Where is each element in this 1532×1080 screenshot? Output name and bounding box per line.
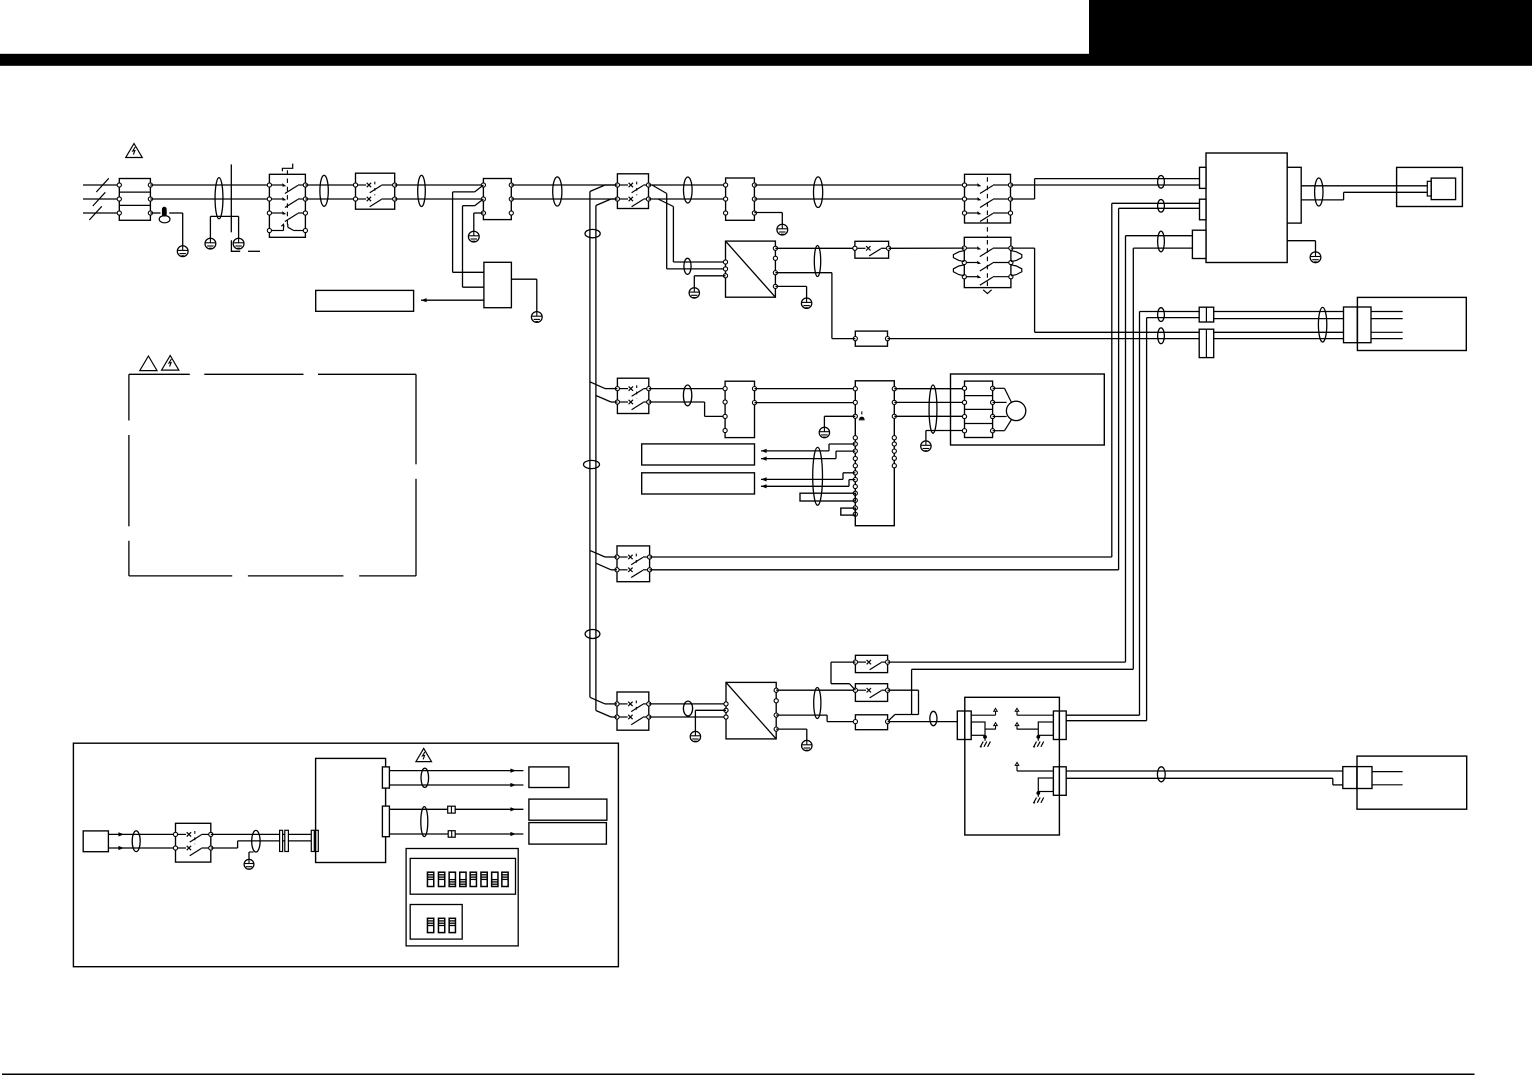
connector J3 xyxy=(1344,307,1372,343)
wire A2-LB3 a xyxy=(761,473,855,482)
slash mark L3 xyxy=(89,206,102,220)
inverter board A2 xyxy=(853,381,896,526)
relay FR1 dashed link xyxy=(986,240,988,289)
wire bus B to T1 xyxy=(463,286,484,288)
slash mark L2 xyxy=(93,192,106,206)
indicator box LB4 xyxy=(529,767,569,788)
contactor K1 xyxy=(267,174,307,237)
wire U1 earth xyxy=(694,276,725,288)
wire J4 pin2 xyxy=(985,728,996,730)
wire SW1 tap A xyxy=(590,185,618,192)
A1 tab P1 xyxy=(1200,167,1207,188)
warning triangle W2 xyxy=(140,356,157,371)
junction dot J6 xyxy=(1036,791,1040,797)
wire R1 long xyxy=(888,338,1200,340)
wire A2 earth xyxy=(824,416,855,427)
wire J2-J3 b xyxy=(1214,338,1344,340)
terminal block X1 xyxy=(117,179,152,221)
ferrite E21 xyxy=(929,385,937,433)
wire bus A to T1 xyxy=(453,271,484,273)
wire shield left drop xyxy=(209,216,211,238)
wire L1 to control unit xyxy=(1011,184,1200,186)
control section box xyxy=(73,743,618,967)
wire PE vertical xyxy=(230,164,232,232)
contactor K1 dashed link xyxy=(286,170,288,226)
switch S3 xyxy=(853,655,889,672)
warning triangle W3 xyxy=(162,356,179,371)
resistor R2 xyxy=(853,715,889,730)
wire plug b xyxy=(1301,192,1427,200)
wire L1 SW1-F2 xyxy=(649,184,726,186)
switch SW4 xyxy=(615,692,651,730)
wire J6 out1 xyxy=(1066,770,1343,772)
warning triangle W1 xyxy=(126,144,143,158)
wire to R1 xyxy=(832,338,855,340)
coil pin Y1b xyxy=(994,723,998,730)
ground G12 xyxy=(690,731,700,741)
switch SW5 dashed link xyxy=(194,831,196,844)
A1 tab P4 right xyxy=(1287,167,1301,223)
wire supply L1 stub xyxy=(83,184,119,186)
connector J6 xyxy=(1053,767,1066,796)
wire v5 xyxy=(1140,312,1200,716)
header top-right black box xyxy=(1089,0,1532,54)
wire SW2-F3 b xyxy=(649,402,725,416)
wire shield drop xyxy=(249,852,254,860)
switch S4 xyxy=(853,684,889,702)
plug enclosure xyxy=(1397,167,1463,206)
noise filter F2 xyxy=(724,178,757,220)
resistor R1 xyxy=(853,331,889,346)
ferrite E11 xyxy=(814,246,820,277)
device box B2 xyxy=(1357,756,1467,809)
label box LB2 xyxy=(642,444,755,465)
junction dot J4 xyxy=(983,735,987,741)
ferrite E18 xyxy=(1315,178,1323,206)
ground G1 xyxy=(177,246,188,257)
coil pin Y3 xyxy=(1015,762,1019,769)
ground G7 xyxy=(689,288,699,298)
coil pin Y2a xyxy=(1015,708,1019,715)
wire L2 S1-F1 xyxy=(395,198,484,200)
dip switch T1 xyxy=(427,918,433,932)
motor M1 circle xyxy=(1006,401,1025,420)
noise filter F1 xyxy=(481,179,513,220)
connector J8 xyxy=(280,830,289,851)
dip switch S6 xyxy=(481,872,487,886)
wire supply L3 stub xyxy=(83,212,119,214)
wire SW5 out a xyxy=(211,833,311,835)
wire R2 branch xyxy=(889,669,1134,721)
converter U2 xyxy=(724,682,778,739)
wire v3 xyxy=(1126,236,1193,662)
wire F3-A2 b xyxy=(755,402,856,404)
bus ferrite E7 xyxy=(585,630,600,639)
label box LB3 xyxy=(642,473,755,494)
earth dash mark xyxy=(248,250,260,252)
ground G6 xyxy=(777,224,788,235)
connector J9 xyxy=(311,830,318,851)
inline connector J11 xyxy=(448,831,455,838)
warning triangle W4 xyxy=(416,748,432,761)
wire motor earth line xyxy=(926,431,965,441)
wire M1 e xyxy=(993,420,1012,431)
switch SW5 xyxy=(173,823,213,862)
ground G8 xyxy=(801,298,811,308)
connector J5 key xyxy=(1038,722,1053,735)
dip switch S1 xyxy=(427,872,433,886)
connector J4 xyxy=(957,711,971,740)
wire J1-J3 b xyxy=(1214,318,1344,320)
wire A2-M1 u xyxy=(894,388,964,390)
wire L1 K1-S1 xyxy=(305,184,355,186)
wire B1 pin3 xyxy=(1371,331,1403,333)
ferrite E15 xyxy=(1158,308,1165,322)
coil pin Y2b xyxy=(1015,723,1019,730)
wire SW5 out b xyxy=(211,841,311,848)
dip switch S3 xyxy=(449,872,455,886)
switch S1 dashed link xyxy=(374,182,376,196)
wire L3 X1-thermal xyxy=(150,212,160,214)
A2 edge tab small xyxy=(841,508,856,515)
ground G3 xyxy=(233,238,244,249)
relay FR1 trip arrow xyxy=(983,290,991,294)
wire L2 K1-S1 xyxy=(305,198,355,200)
connector J4 key xyxy=(971,722,985,735)
wire U2 out2 xyxy=(776,715,855,722)
wire B2 pin1 xyxy=(1372,771,1403,773)
slash mark L1 xyxy=(96,178,109,192)
junction dot J5 xyxy=(1036,735,1040,741)
switch SW2 xyxy=(615,378,651,413)
A3 tab Q2 xyxy=(382,806,389,837)
wire B3 out a xyxy=(108,832,175,836)
wire thermal-ground xyxy=(169,213,183,246)
contactor K1 operator symbol xyxy=(282,164,292,172)
ferrite E2 xyxy=(320,175,328,206)
ferrite E3 xyxy=(418,175,426,206)
wire SW2 tap A xyxy=(590,382,618,389)
wire A2-M1 v xyxy=(894,401,964,403)
wire Q1 b xyxy=(389,783,523,787)
wire shield right drop xyxy=(238,216,240,238)
wire v4 xyxy=(1133,248,1192,669)
wire F2 earth xyxy=(754,213,782,225)
plug body P5 xyxy=(1431,178,1455,200)
ferrite E10 xyxy=(814,177,823,208)
wire SW4-U2 b xyxy=(649,716,726,718)
ferrite E22 xyxy=(683,701,692,716)
ground G4 xyxy=(468,231,479,242)
dip switch S8 xyxy=(502,872,508,886)
ground G5 xyxy=(531,312,542,323)
wire SW4-U2 a xyxy=(649,703,726,705)
wire S3 input xyxy=(831,662,855,690)
thermal sensor xyxy=(159,207,170,223)
wire F3-A2 a xyxy=(755,388,856,390)
connector J6 key xyxy=(1038,778,1053,792)
control bus B xyxy=(595,206,597,711)
wire A2-LB2 a xyxy=(761,444,855,453)
ferrite E25 xyxy=(1157,767,1165,782)
wire R2 out xyxy=(888,721,958,723)
dip switch T2 xyxy=(438,918,444,932)
wire U2 out1 xyxy=(776,689,855,691)
ferrite E9 xyxy=(684,258,691,274)
ferrite E12 xyxy=(1158,176,1165,189)
wire SW1 branch2 xyxy=(658,199,726,262)
wire L1 F2-KM1 xyxy=(754,184,964,186)
wire SW1 tap B xyxy=(596,199,618,206)
ground G11 xyxy=(921,441,931,451)
motor enclosure xyxy=(951,374,1105,445)
header bar xyxy=(0,54,1532,66)
wire J5 out1 xyxy=(1066,714,1139,716)
wire J2-J3 a xyxy=(1214,331,1344,333)
wire L2 SW1-F2 xyxy=(649,198,726,200)
wire plug a xyxy=(1301,185,1427,187)
wire SW4 tap B xyxy=(596,711,617,718)
wire U1 out2 xyxy=(775,273,832,339)
wire Q1 a xyxy=(389,769,523,773)
wire J6 out2 xyxy=(1066,778,1343,785)
dip switch T3 xyxy=(449,918,455,932)
chassis ground CG3 xyxy=(1033,798,1044,803)
wire Q2 b xyxy=(389,832,523,836)
coil pin Y1a xyxy=(994,708,998,715)
solenoid box xyxy=(965,697,1060,835)
ferrite E23 xyxy=(814,688,821,719)
ground G14 xyxy=(244,859,254,869)
wire T1-LB1 arrow xyxy=(421,298,484,302)
wire SW1 branch1 xyxy=(652,185,726,269)
ground G9 xyxy=(1310,252,1321,263)
wire U1 earth2 xyxy=(775,286,806,298)
wire J4 pin1 xyxy=(971,714,995,716)
ferrite E24 xyxy=(930,711,937,725)
chassis ground CG1 xyxy=(980,742,991,747)
A3 tab Q1 xyxy=(382,767,389,788)
switch S1 xyxy=(353,173,396,209)
control bus A xyxy=(589,192,591,698)
wire Y3-J6 xyxy=(1017,768,1053,771)
label box LB1 xyxy=(316,290,414,311)
wire PE bracket xyxy=(231,240,240,251)
switch SW3 dashed link xyxy=(635,554,637,566)
wire M1 w xyxy=(993,416,1007,418)
noise filter F3 xyxy=(723,381,757,437)
ferrite E8 xyxy=(684,177,693,203)
wire F1 tap B xyxy=(463,199,484,206)
connector J1 xyxy=(1199,307,1214,322)
dip switch S2 xyxy=(438,872,444,886)
switch S2 xyxy=(853,241,891,258)
inline connector J10 xyxy=(448,806,456,813)
ferrite E28 xyxy=(421,768,429,787)
wire A2-LB2 b xyxy=(761,451,855,461)
bus ferrite E5 xyxy=(585,229,600,237)
wire SW4 tap A xyxy=(590,697,617,704)
relay KM1 xyxy=(962,174,1012,223)
wire S4 out xyxy=(888,690,919,714)
wire SW3 tap B xyxy=(596,563,617,570)
wire Y2b-J5 xyxy=(1017,728,1038,729)
dip bank 2 box xyxy=(410,905,462,940)
ground G10 xyxy=(819,427,829,437)
dip panel box xyxy=(406,849,518,946)
relay KM1 dashed link xyxy=(986,177,988,237)
wire B1 pin1 xyxy=(1371,311,1403,313)
wire L1 X1-K1 xyxy=(150,184,269,186)
indicator box LB5 xyxy=(529,799,607,820)
wire SW2-F3 a xyxy=(649,388,725,390)
switch SW1 dashed link xyxy=(636,182,638,196)
wire J1-J3 a xyxy=(1214,311,1344,313)
transformer T1 xyxy=(484,262,512,307)
ferrite E20 xyxy=(813,447,823,505)
ferrite E17 xyxy=(1318,307,1326,342)
wire M1 u xyxy=(993,388,1012,402)
control board A3 xyxy=(316,758,386,862)
wire U1 out1 xyxy=(775,247,855,249)
dip switch S5 xyxy=(470,872,476,886)
wire S3 out xyxy=(888,661,1126,663)
sensor box B3 xyxy=(83,831,108,852)
wire SW3 out b xyxy=(650,569,1119,571)
connector J5 xyxy=(1053,711,1066,740)
switch SW4 dashed link xyxy=(635,701,637,714)
ground G2 xyxy=(205,238,216,249)
A2 edge tab wide xyxy=(800,493,855,501)
wire v2 xyxy=(1119,208,1200,570)
wire L2 X1-K1 xyxy=(150,198,269,200)
wire SW2 tap B xyxy=(596,396,618,403)
wire B1 pin4 xyxy=(1371,338,1403,340)
A1 tab P2 xyxy=(1200,199,1207,220)
wire FR1 out xyxy=(1011,248,1199,332)
wire B1 pin2 xyxy=(1371,318,1403,320)
converter U1 xyxy=(723,241,777,297)
ferrite E16 xyxy=(1158,328,1165,344)
ferrite E26 xyxy=(132,831,140,852)
plug tab xyxy=(1427,181,1431,196)
wire M1 v xyxy=(993,401,1007,403)
dip switch S7 xyxy=(492,872,498,886)
switch SW1 xyxy=(615,174,650,209)
wire U2 earth2 xyxy=(776,729,807,740)
dip switch S4 xyxy=(460,872,466,886)
ferrite E4 xyxy=(553,177,562,206)
ferrite E1 xyxy=(215,178,223,219)
ferrite E13 xyxy=(1158,200,1165,213)
wire SW3 tap A xyxy=(590,550,617,557)
dip bank 1 box xyxy=(410,858,515,894)
overload relay FR1 xyxy=(953,237,1021,287)
wire S2-FR1 xyxy=(889,247,965,249)
ferrite E14 xyxy=(1158,231,1165,252)
wire F1 earth xyxy=(474,213,484,231)
bus ferrite E6 xyxy=(584,460,600,468)
A2 chassis symbol xyxy=(859,411,865,419)
wire L2 F1-SW1 xyxy=(511,198,617,200)
connector J7 xyxy=(1343,767,1372,789)
bus B vertical xyxy=(462,206,464,288)
switch SW2 dashed link xyxy=(636,385,638,398)
wire T1 earth xyxy=(511,279,536,311)
wire F1 tap A xyxy=(453,185,484,192)
wire A1 earth xyxy=(1287,241,1315,252)
warning note box xyxy=(129,374,416,576)
device box B1 xyxy=(1357,297,1466,350)
connector J2 xyxy=(1199,329,1214,357)
wire J5 out2 xyxy=(1066,720,1146,722)
wire U2 earth xyxy=(695,710,726,731)
wire Q2 a xyxy=(389,807,523,811)
ferrite E29 xyxy=(421,807,428,837)
wire A2-M1 w xyxy=(894,415,964,417)
wire Y2a-J5 xyxy=(1017,714,1053,716)
wire SW3 out a xyxy=(650,556,1112,558)
wire v6 xyxy=(1147,318,1200,721)
ground G13 xyxy=(802,740,812,750)
wire v1 xyxy=(1112,203,1200,557)
bottom rule xyxy=(2,1074,1475,1076)
wire A2-LB3 b xyxy=(761,480,855,489)
wire L2 F2-KM1 xyxy=(754,198,964,200)
bus A vertical xyxy=(452,192,454,272)
A1 tab P3 xyxy=(1192,230,1206,258)
wire shield bar xyxy=(210,215,238,217)
ferrite E19 xyxy=(683,385,691,406)
wire L1 S1-F1 xyxy=(395,184,484,186)
chassis ground CG2 xyxy=(1033,742,1044,747)
wire B3 out b xyxy=(108,846,175,850)
switch SW3 xyxy=(615,546,652,582)
control unit A1 xyxy=(1206,153,1287,263)
wire B2 pin2 xyxy=(1372,784,1403,786)
wire supply L2 stub xyxy=(83,198,119,200)
wire L2 jog xyxy=(1011,179,1200,199)
ferrite E27 xyxy=(252,830,260,852)
wire L1 F1-SW1 xyxy=(511,184,617,186)
motor terminal block xyxy=(962,381,994,437)
indicator box LB6 xyxy=(529,823,607,845)
